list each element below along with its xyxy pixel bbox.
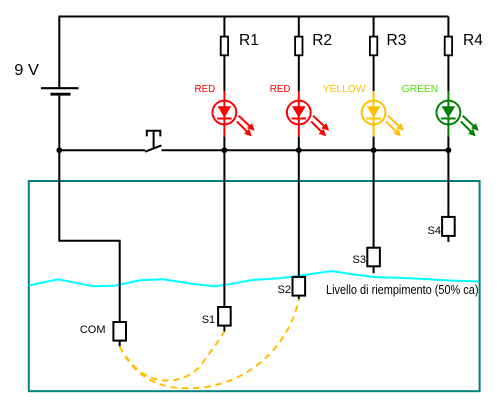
battery B1 plate long [41, 87, 79, 89]
svg-text:R1: R1 [239, 32, 259, 49]
wire column 1 upper [223, 17, 225, 37]
wire S3 [373, 150, 375, 248]
LED D3 [362, 91, 404, 137]
tank [29, 181, 480, 391]
junction battery bus [56, 147, 62, 153]
wire column 4 upper [447, 17, 449, 37]
sensor S4 [442, 217, 455, 236]
svg-text:S3: S3 [353, 254, 366, 266]
svg-text:RED: RED [195, 84, 216, 95]
wire S2 [298, 150, 300, 277]
resistor R1 [221, 37, 228, 56]
junction column 4 bus [446, 147, 452, 153]
wire column 1 mid [223, 55, 225, 91]
water level line [29, 271, 479, 286]
resistor R4 [445, 37, 452, 56]
svg-text:COM: COM [80, 324, 106, 336]
LED D4 [437, 91, 479, 137]
wire S1 [223, 150, 225, 307]
pushbutton SW1 actuator [147, 131, 161, 148]
wire top bus [59, 17, 448, 88]
LED D1 [213, 91, 255, 137]
sensor S2 stub [298, 296, 300, 300]
sensor S3 stub [373, 266, 375, 273]
wire battery negative down [58, 96, 60, 151]
junction column 1 bus [222, 147, 228, 153]
sensor S3 [367, 248, 380, 267]
wire column 3 lower [373, 137, 375, 151]
sensor S2 [293, 277, 306, 296]
svg-text:RED: RED [270, 84, 291, 95]
pushbutton SW1 lever [145, 145, 162, 151]
svg-text:Livello di riempimento (50% ca: Livello di riempimento (50% ca) [326, 282, 479, 297]
wire column 3 mid [373, 55, 375, 91]
wire column 2 lower [298, 137, 300, 151]
svg-text:R4: R4 [463, 32, 483, 49]
wire column 4 lower [447, 137, 449, 151]
junction column 2 bus [296, 147, 302, 153]
sensor S1 stub [223, 326, 225, 332]
conduction path COM to S2 (dashed) [120, 300, 299, 389]
svg-text:R2: R2 [312, 32, 332, 49]
sensor COM stub [119, 341, 121, 347]
junction column 3 bus [371, 147, 377, 153]
svg-text:S1: S1 [202, 314, 215, 326]
LED D2 [287, 91, 329, 137]
wire S4 [447, 150, 449, 217]
resistor R3 [370, 37, 377, 56]
wire column 2 mid [298, 55, 300, 91]
conduction path COM to S1 (dashed) [120, 332, 225, 381]
svg-text:9 V: 9 V [14, 62, 39, 79]
sensor COM [113, 322, 126, 341]
svg-text:R3: R3 [387, 32, 407, 49]
wire bus right segment [162, 149, 449, 151]
svg-text:GREEN: GREEN [402, 84, 439, 95]
wire column 2 upper [298, 17, 300, 37]
battery B1 plate short [51, 93, 71, 96]
svg-text:S4: S4 [428, 225, 441, 237]
svg-text:YELLOW: YELLOW [323, 84, 366, 95]
svg-text:S2: S2 [278, 284, 291, 296]
wire bus left segment [59, 149, 145, 151]
wire column 1 lower [223, 137, 225, 151]
wire column 3 upper [373, 17, 375, 37]
sensor S1 [218, 307, 231, 326]
wire COM from battery rail [59, 150, 119, 322]
resistor R2 [295, 37, 302, 56]
sensor S4 stub [447, 236, 449, 242]
wire column 4 mid [447, 55, 449, 91]
